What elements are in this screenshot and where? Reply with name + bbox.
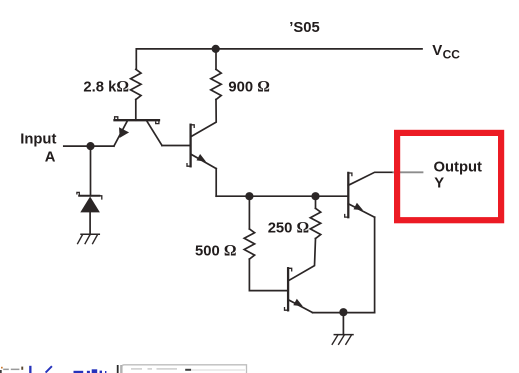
- fragment dark bar: [117, 365, 119, 373]
- svg-text:A: A: [45, 149, 56, 165]
- transistor Q4 collector: [348, 172, 392, 185]
- transistor Q3 emitter: [288, 300, 313, 313]
- wire diode to ground: [89, 212, 91, 234]
- svg-text:250 Ω: 250 Ω: [268, 220, 309, 237]
- ground G1 bar: [81, 233, 99, 235]
- diode D1 anode triangle: [80, 197, 100, 213]
- fragment blue slash: [46, 366, 52, 372]
- transistor Q1 emitter arrow: [119, 127, 129, 138]
- resistor R2 900 zigzag: [211, 69, 221, 99]
- transistor Q4 emitter arrow: [354, 203, 364, 210]
- fragment dark tick: [21, 367, 23, 370]
- transistor Q2 bar hook top: [191, 125, 195, 128]
- resistor R4 250 zigzag: [310, 208, 320, 238]
- svg-text:’S05: ’S05: [289, 20, 319, 36]
- transistor Q3 base bar: [287, 268, 289, 310]
- transistor Q3 bar hook bottom: [285, 308, 289, 311]
- svg-text:CC: CC: [443, 48, 461, 62]
- wire R1 bottom to Q1 base: [135, 100, 137, 121]
- wire input node to diode: [90, 146, 92, 196]
- wire node to Q4 base: [216, 195, 348, 197]
- transistor Q2 bar hook bottom: [187, 164, 191, 167]
- transistor Q1 base bar: [115, 119, 160, 121]
- ground G1 ticks: [78, 235, 98, 244]
- fragment blue bar: [29, 366, 31, 373]
- transistor Q4 bar hook bottom: [345, 215, 349, 218]
- transistor Q2 emitter: [191, 154, 217, 169]
- transistor Q1 bar hook right: [156, 120, 159, 123]
- fragment orange dot: [1, 367, 3, 369]
- diode D1 cathode hook left: [77, 192, 79, 195]
- transistor Q4 base bar: [347, 173, 349, 217]
- svg-text:2.8 kΩ: 2.8 kΩ: [83, 79, 129, 96]
- fragment dark sliver: [0, 370, 2, 373]
- wire VCC rail: [136, 49, 422, 69]
- transistor Q2 emitter arrow: [197, 154, 207, 162]
- wire rail to R2: [215, 49, 217, 69]
- fragment gray bar: [120, 365, 122, 373]
- svg-text:Output: Output: [434, 160, 483, 176]
- fragment box inner dashes: [131, 368, 142, 369]
- junction dot VCC rail: [212, 45, 220, 53]
- fragment dark dash: [185, 369, 191, 371]
- red annotation box: [397, 133, 501, 220]
- fragment gray dash 1: [3, 369, 9, 371]
- wire Q4 emitter down: [374, 217, 376, 312]
- transistor Q1 emitter: [114, 120, 128, 146]
- junction dot input node: [86, 142, 94, 150]
- ground G2 bar: [334, 334, 353, 336]
- junction dot ground node: [339, 308, 347, 316]
- junction dot node R4: [311, 192, 319, 200]
- transistor Q3 bar hook top: [288, 268, 292, 271]
- wire node to R3: [248, 196, 250, 229]
- fragment blue text tops: [74, 371, 84, 373]
- wire input A: [64, 145, 114, 147]
- svg-text:Y: Y: [434, 175, 444, 191]
- transistor Q2 base bar: [189, 125, 191, 167]
- resistor R3 500 zigzag: [244, 229, 254, 259]
- diode D1 cathode hook right: [99, 196, 102, 199]
- fragment faint line: [192, 369, 246, 370]
- transistor Q4 emitter: [348, 204, 374, 217]
- wire R3 bottom to Q3 base: [249, 259, 288, 291]
- wire Q2 emitter down: [215, 169, 217, 197]
- svg-text:V: V: [432, 42, 442, 59]
- resistor R1 2.8k zigzag: [131, 69, 141, 99]
- fragment gray box: [122, 365, 247, 373]
- transistor Q4 bar hook top: [348, 173, 352, 176]
- wire output gray: [393, 171, 424, 173]
- wire ground drop: [342, 312, 344, 334]
- diode D1 cathode bar: [79, 195, 99, 197]
- svg-text:Input: Input: [20, 132, 56, 148]
- wire node to R4: [315, 196, 317, 208]
- transistor Q3 emitter arrow: [293, 299, 303, 306]
- bottom cut-off fragments: [0, 365, 247, 373]
- transistor Q1 collector: [146, 120, 162, 145]
- junction dot node R3: [245, 192, 253, 200]
- wire Q1 collector to Q2 base: [162, 145, 191, 147]
- transistor Q1 bar hook left: [115, 117, 118, 120]
- wire R4 bottom to Q3 collector: [288, 239, 315, 281]
- fragment gray dash 2: [11, 369, 20, 371]
- ground G2 ticks: [332, 335, 351, 345]
- wire R2 bottom to Q2 collector: [191, 100, 217, 137]
- svg-text:900 Ω: 900 Ω: [228, 79, 269, 96]
- svg-text:500 Ω: 500 Ω: [195, 242, 236, 259]
- wire bottom node: [313, 312, 375, 314]
